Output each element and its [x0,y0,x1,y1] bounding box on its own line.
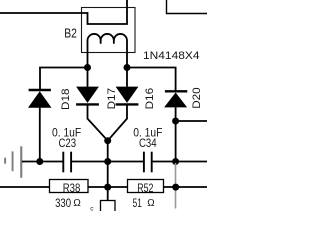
svg-text:Ω: Ω [73,198,81,209]
wire to right edge upper [176,120,207,122]
diode D17 cathode bar [76,103,99,105]
diode D20 triangle [164,93,187,108]
resistor R38 box [50,180,89,193]
wire C23 to C34 [72,161,143,163]
junction dot D18 bottom [36,158,43,165]
diode D16 cathode bar [116,103,139,105]
bottom rail middle segment [88,186,128,188]
svg-text:B2: B2 [64,25,77,40]
wire D16 cathode to merge node [108,105,127,141]
wire merge node down through mid rail to bottom rail [107,141,109,201]
bottom rail left segment [0,186,50,188]
svg-text:D20: D20 [191,87,203,109]
diode D17 triangle [76,87,99,103]
diode D16 triangle [116,87,139,103]
wire D20 anode down [175,107,177,121]
capacitor C34 plate right [151,152,153,173]
svg-text:51: 51 [133,196,142,210]
capacitor C23 plate left [62,152,64,173]
battery bar long [20,146,22,178]
battery bar medium [12,151,14,171]
wire D18 anode down [39,108,41,162]
wire coil right end down to junction [126,41,128,68]
junction dot D20 bottom [172,118,179,125]
wire to right edge mid [176,161,207,163]
svg-text:Ω: Ω [147,198,155,209]
transformer B2 secondary winding coil arc 2 [101,34,114,44]
diode D18 cathode bar [29,89,51,91]
diode D18 triangle [28,91,52,108]
wire left dot down to D17 [87,68,89,87]
wire D17 cathode to merge node [88,105,108,141]
svg-text:D16: D16 [144,88,156,110]
wire coil left end down to junction [87,41,89,68]
junction dot right [124,64,131,71]
transformer B2 secondary winding coil arc 3 [114,34,127,41]
svg-text:C23: C23 [59,136,77,150]
svg-text:1N4148X4: 1N4148X4 [143,50,200,62]
transformer B2 secondary winding coil arc 1 [88,34,101,44]
wire gray down to bottom rail [175,163,177,209]
svg-text:330: 330 [55,196,71,210]
capacitor C34 plate left [143,152,145,173]
junction dot left [84,64,91,71]
wire down right column [175,121,177,162]
junction dot right column mid rail [172,158,179,165]
wire battery to C23 [22,161,64,163]
svg-text:C34: C34 [139,136,157,150]
svg-text:D18: D18 [60,89,72,111]
junction dot bottom center [104,184,111,191]
wire primary input from left edge [0,12,88,14]
svg-text:D17: D17 [106,88,118,110]
capacitor C23 plate right [70,152,72,173]
wire C34 right to right column [153,161,176,163]
battery bar short [4,158,6,164]
junction dot merge node [104,137,111,144]
wire from left dot to D18 [40,68,88,90]
component box below bottom rail [101,201,116,213]
diode D20 cathode bar [165,90,187,92]
wire right dot down to D16 [126,68,128,87]
bottom rail right segment [164,186,207,188]
transformer B2 primary winding (U link) [88,0,128,24]
transformer B2 outline box [82,8,136,53]
wire from right dot to D20 [127,68,176,91]
component corner top right [167,0,208,14]
svg-text:R38: R38 [63,181,81,195]
junction dot center mid rail [104,158,111,165]
junction dot bottom right [172,184,179,191]
resistor R52 box [128,180,164,193]
svg-text:R52: R52 [137,181,153,195]
